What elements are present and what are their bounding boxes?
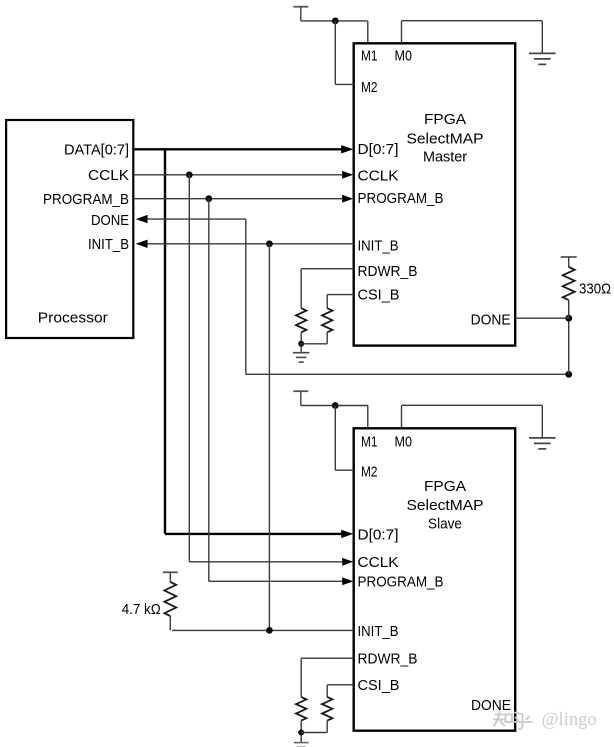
svg-text:M1: M1 (361, 47, 378, 64)
svg-text:D[0:7]: D[0:7] (358, 141, 399, 158)
svg-text:CCLK: CCLK (88, 167, 129, 184)
svg-text:INIT_B: INIT_B (88, 236, 129, 253)
svg-text:D[0:7]: D[0:7] (358, 527, 399, 544)
svg-text:RDWR_B: RDWR_B (358, 650, 418, 667)
svg-text:330Ω: 330Ω (579, 281, 611, 298)
svg-text:Master: Master (423, 148, 467, 165)
svg-text:M0: M0 (395, 47, 413, 64)
svg-text:INIT_B: INIT_B (358, 623, 399, 640)
svg-text:@lingo: @lingo (542, 710, 597, 730)
svg-text:SelectMAP: SelectMAP (407, 131, 484, 148)
svg-text:SelectMAP: SelectMAP (407, 497, 484, 514)
svg-text:DONE: DONE (91, 212, 129, 229)
svg-text:RDWR_B: RDWR_B (358, 263, 418, 280)
svg-text:PROGRAM_B: PROGRAM_B (358, 190, 444, 207)
svg-text:Processor: Processor (38, 309, 108, 326)
svg-text:M1: M1 (361, 434, 378, 451)
svg-text:CSI_B: CSI_B (358, 287, 400, 304)
svg-text:DONE: DONE (471, 311, 511, 328)
svg-text:FPGA: FPGA (424, 111, 466, 128)
svg-text:INIT_B: INIT_B (358, 238, 399, 255)
svg-text:M0: M0 (395, 434, 413, 451)
svg-text:M2: M2 (361, 79, 378, 96)
svg-text:M2: M2 (361, 463, 378, 480)
svg-text:DATA[0:7]: DATA[0:7] (64, 142, 129, 159)
svg-text:4.7 kΩ: 4.7 kΩ (122, 601, 161, 618)
svg-text:Slave: Slave (428, 516, 462, 533)
svg-text:PROGRAM_B: PROGRAM_B (358, 574, 444, 591)
svg-text:PROGRAM_B: PROGRAM_B (43, 191, 129, 208)
svg-text:CSI_B: CSI_B (358, 677, 400, 694)
svg-text:DONE: DONE (471, 697, 511, 714)
svg-text:CCLK: CCLK (358, 168, 399, 185)
svg-text:FPGA: FPGA (424, 478, 466, 495)
svg-text:CCLK: CCLK (358, 554, 399, 571)
